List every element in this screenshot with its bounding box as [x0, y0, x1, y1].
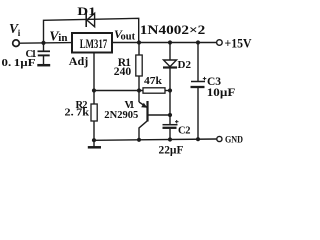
resistor R1: [136, 43, 142, 91]
ground (main): [88, 140, 101, 147]
resistor 47k: [143, 88, 170, 93]
resistor R2: [91, 104, 97, 140]
capacitor C3: [191, 43, 206, 140]
node output R1/D1 junction: [137, 40, 141, 44]
capacitor C1: [38, 43, 51, 64]
node base / C2 junction: [168, 113, 172, 117]
terminal GND: [217, 136, 222, 141]
node 47k / D2 junction: [168, 88, 172, 92]
diode D2: [163, 43, 177, 91]
svg-text:D2: D2: [178, 59, 192, 71]
node output D2 junction: [168, 40, 172, 44]
svg-text:240: 240: [114, 64, 131, 78]
node Adj wire junction: [92, 88, 96, 92]
op-amp U1 regulator LM317 box: [72, 33, 112, 53]
node rail collector junction: [137, 138, 141, 142]
wire Adj node to R1 bottom: [94, 90, 143, 92]
label Vin: [49, 29, 67, 44]
svg-text:D1: D1: [77, 6, 96, 18]
svg-text:2. 7k: 2. 7k: [65, 108, 90, 119]
wire D2 node down to base node: [169, 91, 171, 116]
svg-text:0. 1µF: 0. 1µF: [2, 58, 36, 69]
node rail C3 junction: [196, 137, 200, 141]
label Vi: [9, 21, 21, 38]
node rail C2 junction: [168, 137, 172, 141]
svg-text:C2: C2: [178, 126, 191, 137]
ground (C1): [37, 64, 50, 67]
svg-text:22µF: 22µF: [159, 145, 184, 157]
wire bottom rail: [94, 139, 217, 140]
svg-text:GND: GND: [225, 136, 243, 146]
svg-text:2N2905: 2N2905: [104, 109, 138, 121]
node input junction: [41, 41, 45, 45]
label Vout: [114, 27, 136, 43]
wire LM317 Adj pin down: [93, 53, 95, 105]
svg-text:LM317: LM317: [80, 36, 108, 51]
node R1 bottom / emitter junction: [137, 88, 141, 92]
polarity plus C2: [175, 120, 179, 123]
svg-text:out: out: [121, 32, 136, 43]
wire output LM317 Vout to +15V: [112, 42, 216, 44]
svg-text:1N4002×2: 1N4002×2: [140, 23, 206, 37]
svg-text:10µF: 10µF: [207, 87, 236, 99]
svg-text:in: in: [58, 32, 67, 44]
capacitor C2: [163, 115, 178, 140]
svg-text:47k: 47k: [144, 75, 163, 87]
wire top branch up: [44, 18, 139, 43]
node rail left / R2 junction: [92, 138, 96, 142]
terminal +15V: [217, 40, 223, 46]
wire input Vi to LM317 Vin: [20, 42, 72, 45]
diode D1: [86, 13, 94, 27]
node output C3 junction: [196, 40, 200, 44]
terminal Vi: [13, 40, 20, 47]
svg-text:Adj: Adj: [69, 54, 89, 68]
svg-text:+15V: +15V: [225, 35, 253, 50]
polarity plus C3: [203, 77, 207, 80]
transistor Q1 V1 2N2905: [139, 91, 170, 140]
